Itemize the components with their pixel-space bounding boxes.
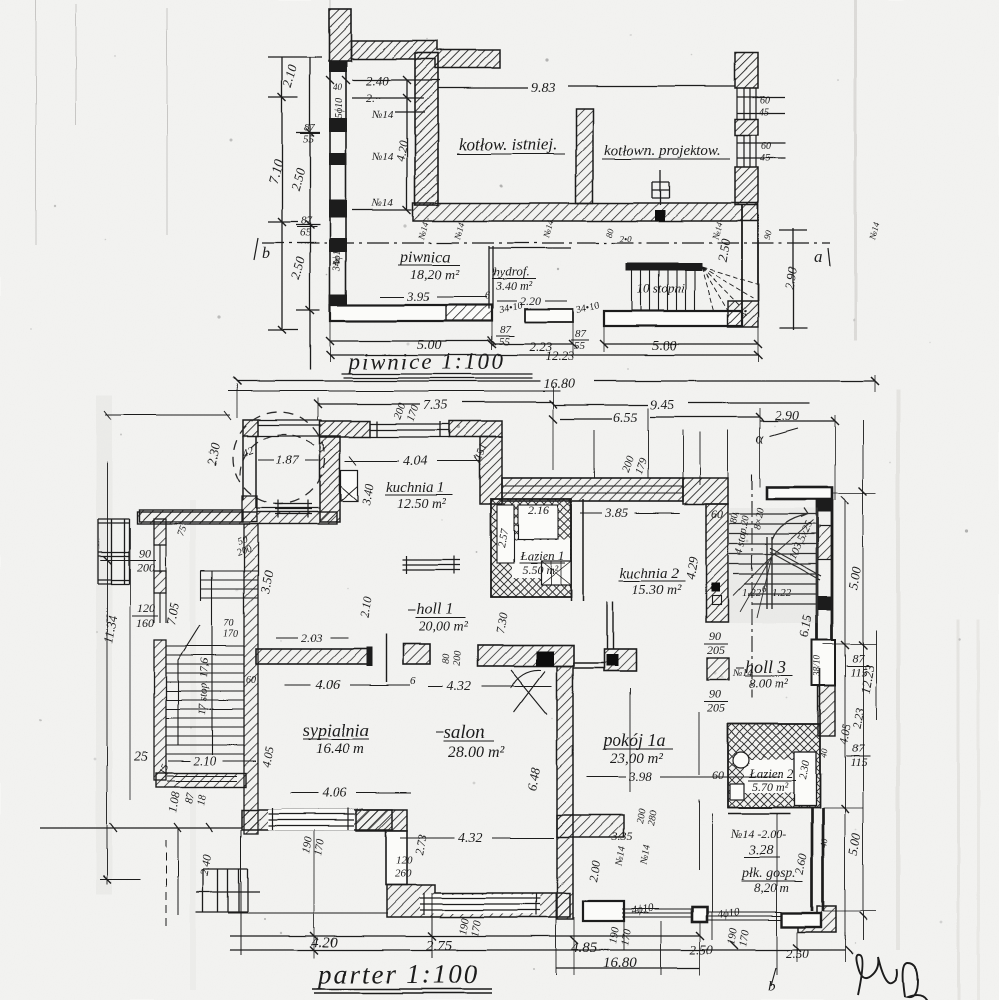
wall right mid xyxy=(735,119,758,135)
svg-text:87: 87 xyxy=(304,122,316,134)
svg-text:60: 60 xyxy=(760,95,770,106)
dim ticks left xyxy=(278,93,314,334)
signature flourish xyxy=(856,955,928,1000)
svg-text:2.··: 2.·· xyxy=(366,91,381,105)
dim second line top xyxy=(228,390,560,392)
svg-text:6: 6 xyxy=(762,584,767,594)
wall A kotlownia left xyxy=(415,53,438,205)
svg-text:7.35: 7.35 xyxy=(423,398,448,413)
dim line 9.83 xyxy=(438,86,735,88)
dim left stub y415 xyxy=(104,411,231,420)
svg-text:16.80: 16.80 xyxy=(543,377,575,392)
wall central vertical salon/pokoj xyxy=(557,666,573,919)
svg-text:90: 90 xyxy=(709,687,721,701)
svg-text:12.23: 12.23 xyxy=(545,348,575,363)
flue black square b xyxy=(606,654,618,666)
extension verticals right-bottom xyxy=(630,688,777,975)
svg-text:4.32: 4.32 xyxy=(447,679,472,694)
svg-text:87: 87 xyxy=(301,215,313,227)
entry steps outside xyxy=(196,869,260,912)
verticals bottom xyxy=(314,830,845,975)
bathroom1 wall right xyxy=(571,499,583,601)
svg-text:4.20: 4.20 xyxy=(311,935,338,951)
wall block step bottom xyxy=(356,810,407,831)
svg-text:2•0: 2•0 xyxy=(620,234,633,244)
svg-text:6: 6 xyxy=(410,675,416,687)
chimney shaft hatch xyxy=(818,685,835,736)
svg-text:120: 120 xyxy=(137,601,155,615)
wall band below garage xyxy=(137,512,337,524)
svg-text:hydrof.: hydrof. xyxy=(493,264,530,279)
dim line right verticals xyxy=(779,228,807,330)
svg-text:3.28: 3.28 xyxy=(748,843,774,858)
flue black square xyxy=(655,210,665,221)
svg-text:4.32: 4.32 xyxy=(458,831,483,846)
wall stairs top thick xyxy=(767,487,832,499)
dim 6.55 / 2.90 xyxy=(560,417,835,421)
svg-text:2.40: 2.40 xyxy=(366,73,389,88)
svg-text:55: 55 xyxy=(574,340,586,352)
staircase upper flight xyxy=(201,571,258,755)
svg-text:2.50: 2.50 xyxy=(786,946,809,961)
svg-text:115: 115 xyxy=(850,755,867,769)
svg-text:2.90: 2.90 xyxy=(775,409,800,424)
flue black sq in wall xyxy=(711,583,720,592)
wall garage right hatch xyxy=(320,436,340,522)
svg-text:Łazien 1: Łazien 1 xyxy=(519,548,564,563)
wall sypialnia bottom band xyxy=(242,810,392,830)
extension line y913 xyxy=(228,912,388,914)
extension verticals bottom xyxy=(330,305,758,362)
bathroom2 sink circle xyxy=(733,752,749,768)
svg-text:60: 60 xyxy=(761,141,771,152)
svg-text:40: 40 xyxy=(333,82,343,92)
svg-text:№14 -2.00-: №14 -2.00- xyxy=(730,827,786,841)
wall garage left double xyxy=(243,436,256,508)
room 1.87 outline xyxy=(256,436,320,508)
svg-text:2.20: 2.20 xyxy=(520,294,541,308)
svg-text:a: a xyxy=(814,247,823,266)
svg-text:70: 70 xyxy=(224,618,234,629)
svg-text:3.95: 3.95 xyxy=(406,289,430,304)
chimney shaft white xyxy=(812,640,835,685)
svg-text:5.70 m²: 5.70 m² xyxy=(752,780,789,794)
svg-text:4•: 4• xyxy=(333,257,341,267)
svg-text:kotłown. projektow.: kotłown. projektow. xyxy=(604,143,721,159)
svg-text:płk. gosp.: płk. gosp. xyxy=(741,866,796,881)
svg-text:200: 200 xyxy=(137,560,155,574)
svg-text:45: 45 xyxy=(759,107,769,118)
wall garage top thin xyxy=(258,420,322,425)
svg-text:25: 25 xyxy=(134,750,148,765)
stairs basement treads xyxy=(632,271,695,311)
wall thin vertical kuchnia2/holl xyxy=(607,601,613,649)
bathroom2 wc square xyxy=(730,784,744,800)
dashed circle well xyxy=(233,412,325,504)
wall corner hatch bottom right xyxy=(728,301,758,327)
wall kuchnia2 right hatch xyxy=(706,504,728,622)
svg-text:sypialnia: sypialnia xyxy=(303,720,369,740)
svg-text:170: 170 xyxy=(223,629,238,640)
svg-text:45: 45 xyxy=(760,153,770,164)
svg-text:23,00 m²: 23,00 m² xyxy=(610,751,663,767)
wall corner hatch kuchnia2 top-right xyxy=(683,478,728,504)
wall left window b xyxy=(154,593,166,623)
stairs fan dashed xyxy=(702,267,757,311)
wall left outer hatch b xyxy=(154,571,166,593)
extension vertical x241 lower xyxy=(178,828,241,955)
wall block with flue xyxy=(604,649,636,671)
extension stroke x386 xyxy=(385,634,387,682)
faint margin verticals top-left xyxy=(36,0,330,245)
stairs basement bar xyxy=(626,263,702,271)
svg-text:α: α xyxy=(756,431,765,447)
svg-text:87: 87 xyxy=(575,328,587,340)
svg-text:1.22: 1.22 xyxy=(742,587,762,599)
bathroom1 crosshatch xyxy=(491,499,571,597)
wall garage left corner hatch xyxy=(242,496,257,522)
wall hatch segment bottom xyxy=(446,305,492,321)
section line dash-dot xyxy=(262,242,830,244)
extension verticals kuchnia2 top xyxy=(594,408,728,485)
svg-text:3.40 m²: 3.40 m² xyxy=(495,279,533,293)
flue black square a xyxy=(536,651,554,666)
faint scanner streaks right side xyxy=(896,390,900,950)
svg-text:20,00 m²: 20,00 m² xyxy=(419,620,469,635)
wall pillar garage top-left xyxy=(243,420,258,436)
wall right lower outer xyxy=(742,205,758,327)
bathroom2 crosshatch xyxy=(728,724,820,808)
post square gosp xyxy=(692,907,707,922)
wall below bathroom2 xyxy=(728,808,812,814)
svg-text:4.06: 4.06 xyxy=(322,786,347,801)
svg-text:9.45: 9.45 xyxy=(650,398,675,413)
window salon bottom xyxy=(420,898,540,910)
svg-text:piwnice 1:100: piwnice 1:100 xyxy=(346,349,505,374)
dashed vertical x166 lower xyxy=(165,840,167,930)
svg-text:b: b xyxy=(262,245,270,262)
svg-text:№14: №14 xyxy=(732,668,752,679)
wall gosp bottom right xyxy=(782,913,821,927)
staircase right wall hatch xyxy=(244,524,258,834)
svg-text:90: 90 xyxy=(139,546,151,560)
stairs GF rails xyxy=(767,537,772,609)
svg-text:16.40 m: 16.40 m xyxy=(316,741,365,757)
svg-text:2.75: 2.75 xyxy=(426,938,453,954)
window sill bottom center xyxy=(525,309,573,322)
left dim x130 xyxy=(129,528,131,800)
door rect bottom gosp xyxy=(583,901,624,921)
svg-text:2.03: 2.03 xyxy=(301,631,322,645)
wall piwnica bottom left part xyxy=(330,305,492,321)
svg-text:15.30 m²: 15.30 m² xyxy=(632,583,682,598)
wall door post block xyxy=(403,644,430,664)
bathroom1 fixtures xyxy=(497,505,514,563)
svg-text:260: 260 xyxy=(395,868,412,880)
svg-text:16.80: 16.80 xyxy=(603,955,637,971)
holl3 hatch square xyxy=(707,658,729,680)
svg-text:6.55: 6.55 xyxy=(613,411,638,426)
wall hydrofornia left xyxy=(489,246,571,309)
window right 1 xyxy=(737,88,756,119)
svg-text:200: 200 xyxy=(452,650,464,666)
svg-text:kotłow. istniej.: kotłow. istniej. xyxy=(459,135,557,154)
staircase lower treads xyxy=(166,646,244,754)
svg-text:4.06: 4.06 xyxy=(316,678,341,693)
wall left window a xyxy=(154,545,166,573)
svg-text:kuchnia 1: kuchnia 1 xyxy=(386,480,445,496)
svg-text:4.04: 4.04 xyxy=(403,454,428,469)
svg-text:20: 20 xyxy=(739,515,752,527)
svg-text:10 stopni: 10 stopni xyxy=(637,281,685,296)
svg-text:3.85: 3.85 xyxy=(604,505,628,520)
svg-text:12.50 m²: 12.50 m² xyxy=(397,497,447,512)
dim ticks top-left xyxy=(326,76,411,214)
extension verticals bottom center xyxy=(432,893,661,975)
svg-text:2.16: 2.16 xyxy=(528,503,549,517)
left overall vertical dim xyxy=(100,462,140,885)
staircase direction line xyxy=(178,625,200,745)
wall stairs right hatch segment xyxy=(818,526,832,560)
svg-text:№14: №14 xyxy=(371,197,394,209)
svg-text:piwnica: piwnica xyxy=(399,249,451,266)
svg-text:87: 87 xyxy=(852,741,865,755)
svg-text:87: 87 xyxy=(500,324,512,336)
misc horizontal ties right xyxy=(823,493,876,911)
svg-text:2.10: 2.10 xyxy=(193,753,216,768)
svg-text:55: 55 xyxy=(303,134,315,146)
dim line left vertical xyxy=(268,57,322,370)
dim 7.35 xyxy=(318,402,553,404)
vertical guides top xyxy=(237,375,875,500)
wall band north of bathroom1 xyxy=(502,478,683,501)
svg-text:3.35: 3.35 xyxy=(611,829,633,843)
wall left outer hatch c long xyxy=(154,640,166,780)
svg-text:28.00 m²: 28.00 m² xyxy=(448,744,506,761)
svg-text:parter 1:100: parter 1:100 xyxy=(316,959,479,989)
svg-text:55: 55 xyxy=(499,336,511,348)
svg-text:№14: №14 xyxy=(371,109,394,121)
wall kuchnia1 top-right corner hatch xyxy=(449,421,502,437)
dim bottom ticks xyxy=(326,337,762,359)
svg-text:1.22: 1.22 xyxy=(772,587,792,599)
wall left-bottom band xyxy=(156,773,246,787)
svg-text:18,20 m²: 18,20 m² xyxy=(410,268,460,283)
svg-text:5.00: 5.00 xyxy=(652,339,677,354)
svg-text:87: 87 xyxy=(852,651,865,665)
stairs winder fan xyxy=(733,520,813,618)
svg-text:120: 120 xyxy=(396,855,413,867)
svg-text:№14: №14 xyxy=(371,151,394,163)
svg-text:5ϕ10: 5ϕ10 xyxy=(334,98,345,118)
stairs GF treads xyxy=(729,514,817,604)
door swing salon xyxy=(511,670,547,714)
svg-text:65: 65 xyxy=(300,227,312,239)
door threshold garage xyxy=(275,500,312,518)
svg-text:8.00 m²: 8.00 m² xyxy=(749,676,789,691)
window sill gosp left xyxy=(622,909,692,917)
svg-text:1.87: 1.87 xyxy=(276,452,299,467)
svg-text:Łazien 2: Łazien 2 xyxy=(748,766,794,781)
stairs walk line arc xyxy=(772,508,808,540)
svg-text:kuchnia 2: kuchnia 2 xyxy=(620,566,679,582)
door threshold holl1/kuchnia1 xyxy=(402,556,460,574)
svg-text:205: 205 xyxy=(707,643,725,657)
wall right upper xyxy=(735,53,758,88)
stair symbol small kotlownia xyxy=(652,170,669,205)
wall band end cap xyxy=(366,647,372,666)
svg-text:60: 60 xyxy=(246,675,256,686)
wall bottom band kotlownia xyxy=(413,203,758,221)
lintel segments left wall xyxy=(329,61,347,72)
wall central widening xyxy=(557,815,624,837)
svg-text:holl 1: holl 1 xyxy=(417,601,454,618)
wall bottom right part xyxy=(604,311,742,326)
svg-text:6: 6 xyxy=(485,291,490,302)
svg-text:9.83: 9.83 xyxy=(531,81,556,96)
sink unit kuchnia1 xyxy=(341,470,358,501)
bottom dim lines xyxy=(230,936,845,968)
eraser smudge stairs xyxy=(728,508,818,623)
wall band central xyxy=(478,645,574,666)
wall left outer hatch a xyxy=(154,519,166,545)
bay window left outside xyxy=(98,519,129,584)
svg-text:60: 60 xyxy=(712,768,724,782)
extension verticals pokoj xyxy=(698,712,700,870)
wall right lower xyxy=(735,167,758,205)
svg-text:90: 90 xyxy=(709,629,721,643)
wall left piwnica outer xyxy=(330,61,346,305)
stairs dashdot section vertical xyxy=(751,474,753,698)
wall stairs right xyxy=(817,499,832,644)
dim line top-left x407 xyxy=(352,80,440,210)
svg-text:205: 205 xyxy=(707,701,725,715)
dim 16.80 top xyxy=(237,380,875,382)
wall salon bottom band xyxy=(387,885,570,917)
right side dim verticals xyxy=(845,420,876,940)
wall step down vertical xyxy=(386,831,407,885)
wall kuchnia1 top window xyxy=(370,421,449,437)
wall pokoj right boundary thin xyxy=(819,668,821,724)
svg-text:60: 60 xyxy=(711,507,723,521)
wall kuchnia1 right hatch xyxy=(480,437,502,504)
wall chimney column top xyxy=(329,9,351,61)
wall right of gosp xyxy=(812,808,823,911)
dim line right 60-45 xyxy=(737,97,785,158)
window sypialnia bottom xyxy=(268,810,354,830)
svg-text:8,20 m: 8,20 m xyxy=(754,880,789,895)
svg-text:salon: salon xyxy=(444,722,485,743)
svg-text:2.50: 2.50 xyxy=(690,942,713,957)
wall thin link to block xyxy=(573,663,604,668)
extension line y828 left xyxy=(40,823,242,832)
bathroom2 tub xyxy=(794,752,816,806)
wall left top band xyxy=(139,510,243,522)
wall corner hatch bottom-right xyxy=(798,906,836,932)
dim 9.45 xyxy=(553,403,810,405)
svg-text:160: 160 xyxy=(136,616,154,630)
svg-text:pokój 1a: pokój 1a xyxy=(601,730,666,750)
wall holl1/sypialnia band xyxy=(256,649,371,664)
dim line left inner vertical xyxy=(296,133,320,310)
stove symbol corridor xyxy=(541,561,571,585)
wall divider kotlownia xyxy=(576,109,593,203)
window sill gosp right xyxy=(707,912,782,920)
stairs GF handrail diagonal xyxy=(770,548,821,580)
dim bottom lines xyxy=(330,341,758,355)
wall top band xyxy=(351,41,500,68)
svg-text:5.50 m²: 5.50 m² xyxy=(522,563,559,577)
window right 2 xyxy=(737,135,756,167)
svg-text:4.85: 4.85 xyxy=(571,940,598,956)
wall hatch top-right of garage room xyxy=(320,421,370,437)
svg-text:3.98: 3.98 xyxy=(628,769,652,784)
faint gray column left xyxy=(96,395,112,895)
svg-text:80: 80 xyxy=(441,653,453,664)
